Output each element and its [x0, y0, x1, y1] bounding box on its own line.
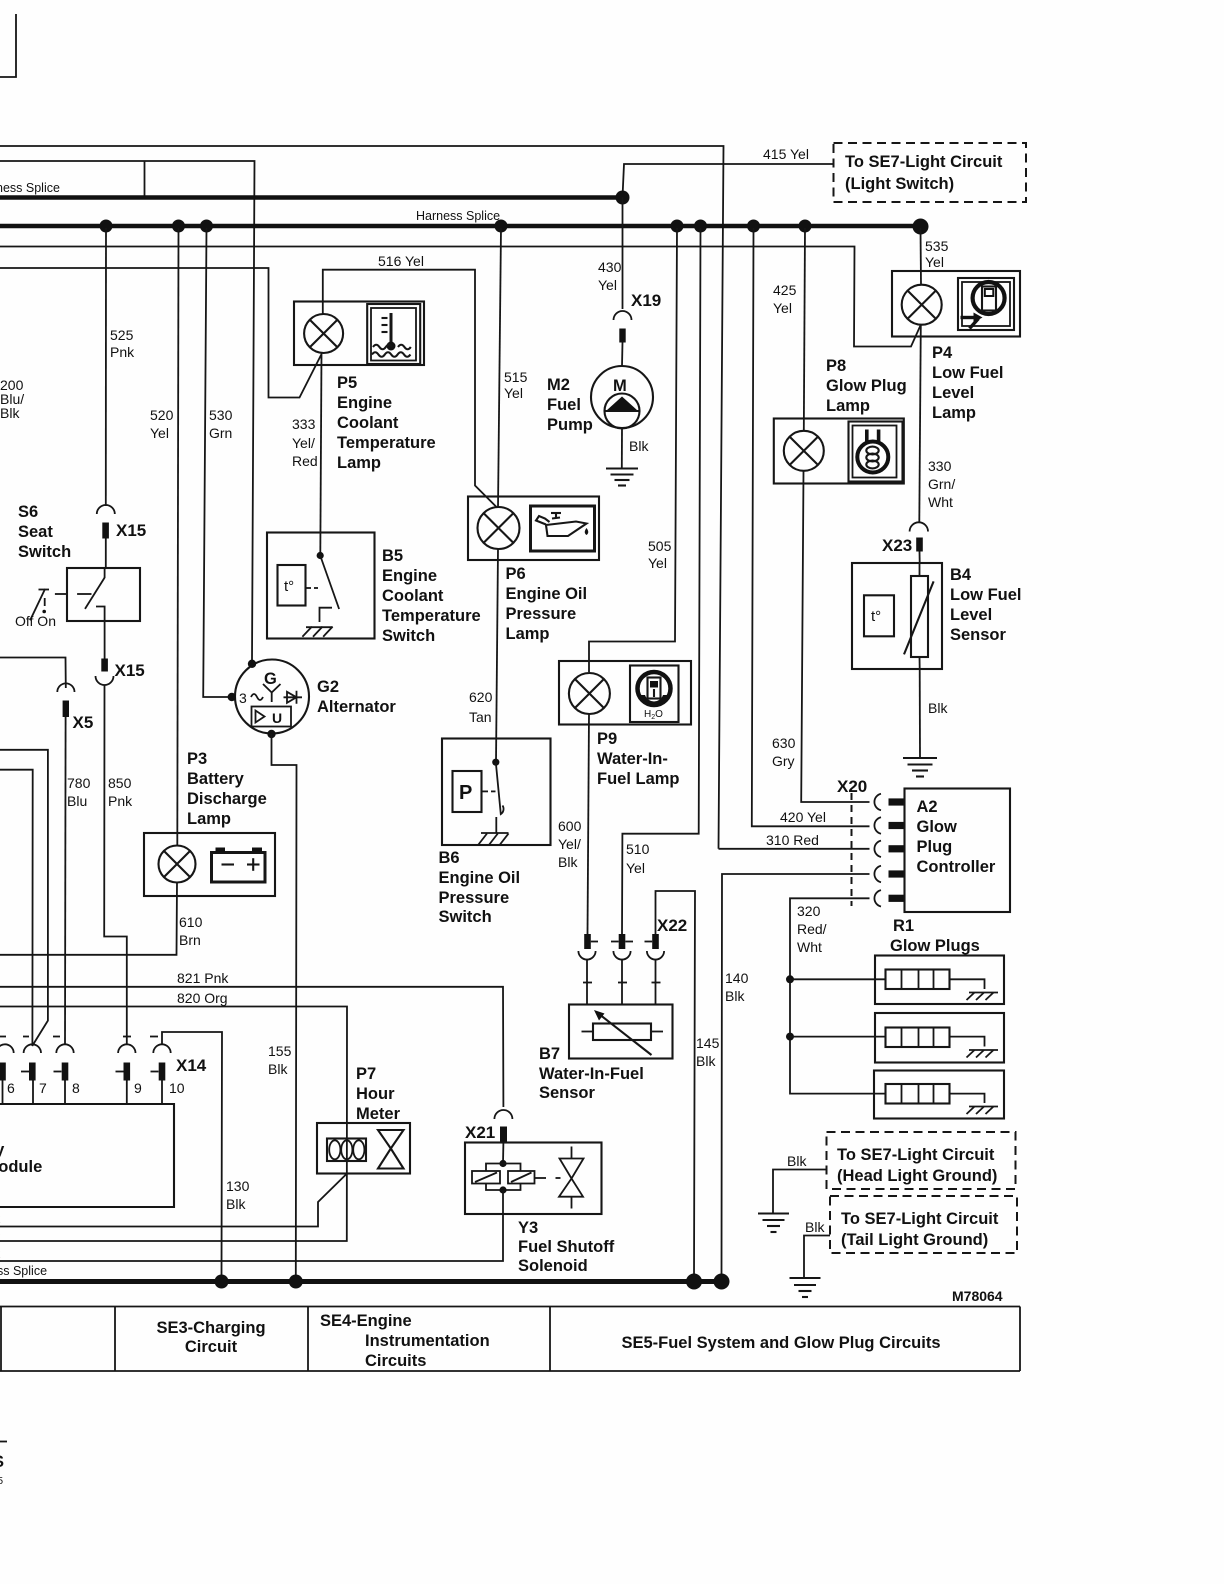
wire 415 Yel — [623, 146, 834, 197]
svg-text:610: 610 — [179, 914, 203, 930]
svg-text:B4: B4 — [950, 566, 972, 584]
wire 420 Yel bus2 to X20 pin2 — [752, 228, 870, 826]
wire 140 Blk X20 pin4 to bottom bus — [722, 874, 870, 1280]
svg-text:Circuit: Circuit — [185, 1338, 238, 1356]
earth ground (head light) — [758, 1214, 789, 1233]
svg-text:To SE7-Light Circuit: To SE7-Light Circuit — [841, 1210, 999, 1228]
solenoid Y3 fuel shutoff — [465, 1143, 615, 1276]
svg-text:Low Fuel: Low Fuel — [950, 586, 1022, 604]
svg-text:515: 515 — [504, 369, 528, 385]
svg-text:Water-In-: Water-In- — [597, 750, 668, 768]
svg-text:330: 330 — [928, 458, 952, 474]
svg-text:130: 130 — [226, 1178, 250, 1194]
svg-text:Hour: Hour — [356, 1085, 395, 1103]
wire from page edge to X14 pin7 (straight) — [0, 770, 33, 1046]
svg-text:X15: X15 — [116, 521, 146, 540]
svg-text:Sensor: Sensor — [539, 1084, 596, 1102]
svg-text:Red/: Red/ — [797, 921, 827, 937]
svg-text:9: 9 — [134, 1080, 142, 1096]
connector X5 — [0, 658, 93, 733]
svg-text:05: 05 — [0, 1476, 4, 1487]
svg-text:P4: P4 — [932, 344, 953, 362]
svg-text:Yel: Yel — [150, 425, 169, 441]
earth ground under B4 — [903, 758, 937, 777]
svg-text:X19: X19 — [631, 291, 661, 310]
svg-text:8: 8 — [72, 1080, 80, 1096]
svg-text:7: 7 — [39, 1080, 47, 1096]
svg-text:6: 6 — [7, 1080, 15, 1096]
lamp P6 engine oil pressure — [468, 497, 599, 644]
svg-text:X21: X21 — [465, 1123, 495, 1142]
low fuel icon in P4 — [958, 278, 1014, 330]
svg-text:t°: t° — [284, 578, 294, 595]
svg-text:535: 535 — [925, 238, 949, 254]
svg-text:G: G — [264, 670, 277, 688]
svg-text:P9: P9 — [597, 730, 617, 748]
svg-text:820 Org: 820 Org — [177, 990, 228, 1006]
svg-text:ss Splice: ss Splice — [0, 1264, 47, 1278]
svg-text:Red: Red — [292, 453, 318, 469]
svg-text:(Light Switch): (Light Switch) — [845, 175, 954, 193]
svg-text:X5: X5 — [73, 713, 94, 732]
wire 425 Yel bus2 to P8 lamp — [773, 228, 805, 431]
wire 535 Yel bus2 end to P4 lamp — [921, 228, 949, 285]
chassis ground in B5 — [302, 627, 332, 637]
svg-text:S: S — [0, 1453, 4, 1471]
svg-text:Brn: Brn — [179, 932, 201, 948]
module box (cut at page edge) — [0, 1104, 174, 1207]
wire 310 Red into X20 pin3 — [719, 832, 870, 849]
connector X15 lower — [96, 621, 145, 685]
svg-text:Seat: Seat — [18, 523, 53, 541]
wire 330 Grn/Wht P4 to X23 — [919, 325, 955, 522]
svg-text:310 Red: 310 Red — [766, 832, 819, 848]
connector X14 pin 10 — [151, 1044, 207, 1104]
wire 530 Grn bus2 to alternator pin 3 — [203, 228, 232, 697]
svg-text:Level: Level — [950, 606, 992, 624]
svg-text:Blk: Blk — [928, 700, 948, 716]
wire 820 Org page edge through P7 and back — [0, 990, 347, 1241]
bottom ground bus — [0, 1274, 730, 1290]
svg-text:Level: Level — [932, 384, 974, 402]
svg-text:Grn/: Grn/ — [928, 476, 955, 492]
svg-text:Alternator: Alternator — [317, 698, 396, 716]
dashed box To SE7 Light Switch — [834, 143, 1027, 202]
svg-text:600: 600 — [558, 818, 582, 834]
svg-text:Battery: Battery — [187, 770, 245, 788]
wire 610 Brn P3 to page edge — [0, 883, 203, 955]
svg-text:U: U — [272, 710, 282, 726]
svg-text:Wht: Wht — [797, 939, 822, 955]
svg-text:Blu: Blu — [67, 793, 87, 809]
svg-text:Pnk: Pnk — [110, 344, 135, 360]
wire Blk to head light ground — [773, 1153, 827, 1214]
water-in-fuel icon in P9 — [630, 666, 679, 723]
svg-text:P7: P7 — [356, 1065, 376, 1083]
svg-text:Plug: Plug — [917, 838, 953, 856]
svg-text:Yel: Yel — [648, 555, 667, 571]
svg-text:Off On: Off On — [15, 613, 56, 629]
section bar — [0, 1307, 1020, 1372]
svg-text:S6: S6 — [18, 503, 38, 521]
svg-text:505: 505 — [648, 538, 672, 554]
lamp P5 engine coolant temperature — [294, 302, 436, 473]
svg-text:Fuel: Fuel — [547, 396, 581, 414]
connector X14 pin 6 (cut at edge) — [0, 1044, 15, 1104]
wire 510 Yel bus2 to X22 pin2 — [622, 228, 701, 934]
wire 155 Blk alternator to bottom bus — [268, 734, 297, 1279]
wire 780 Blu to X14 pin 8 — [65, 717, 91, 1044]
harness splice bus 1 — [0, 181, 630, 205]
svg-text:Lamp: Lamp — [506, 625, 550, 643]
svg-text:Glow Plug: Glow Plug — [826, 377, 907, 395]
S6 actuator symbol with Off/On — [15, 589, 67, 629]
svg-text:333: 333 — [292, 416, 316, 432]
svg-text:320: 320 — [797, 903, 821, 919]
wire 600 Yel/Blk P9 to X22 — [558, 714, 589, 934]
svg-text:Meter: Meter — [356, 1105, 401, 1123]
wire 333 Yel/Red line4 — [0, 268, 321, 469]
sensor B4 low fuel level — [852, 563, 1022, 669]
svg-text:Tan: Tan — [469, 709, 492, 725]
svg-text:Module: Module — [0, 1158, 42, 1176]
hour meter P7 — [317, 1065, 410, 1174]
svg-text:Blk: Blk — [725, 988, 745, 1004]
svg-text:Pump: Pump — [547, 416, 593, 434]
svg-text:520: 520 — [150, 407, 174, 423]
earth ground (tail light) — [790, 1278, 821, 1297]
svg-text:Fuel Shutoff: Fuel Shutoff — [518, 1238, 615, 1256]
svg-text:Engine Oil: Engine Oil — [506, 585, 588, 603]
svg-text:3: 3 — [239, 690, 247, 706]
wire stub line2 to bus1 — [144, 161, 146, 198]
svg-text:425: 425 — [773, 282, 797, 298]
wire 620 Tan P6 to B6 — [469, 549, 498, 762]
glow plug 2 — [875, 1013, 1004, 1063]
wire 630 Gry P8 to X20 pin1 — [772, 471, 870, 802]
svg-text:Wht: Wht — [928, 494, 953, 510]
connector X14 pin 7 — [21, 1044, 47, 1104]
svg-text:Water-In-Fuel: Water-In-Fuel — [539, 1065, 644, 1083]
svg-text:To SE7-Light Circuit: To SE7-Light Circuit — [837, 1146, 995, 1164]
svg-text:Yel: Yel — [626, 860, 645, 876]
svg-text:145: 145 — [696, 1035, 720, 1051]
svg-text:420 Yel: 420 Yel — [780, 809, 826, 825]
svg-text:Lamp: Lamp — [187, 810, 231, 828]
svg-text:Pressure: Pressure — [506, 605, 577, 623]
wire Blk B4 to ground — [920, 669, 949, 758]
svg-text:Yel/: Yel/ — [292, 435, 315, 451]
svg-text:Blk: Blk — [629, 438, 649, 454]
svg-text:140: 140 — [725, 970, 749, 986]
svg-text:Sensor: Sensor — [950, 626, 1007, 644]
svg-text:X22: X22 — [657, 916, 687, 935]
svg-text:415 Yel: 415 Yel — [763, 146, 809, 162]
svg-text:Engine: Engine — [337, 394, 392, 412]
svg-text:Pressure: Pressure — [439, 889, 510, 907]
glow plug 1 — [875, 956, 1004, 1005]
page margin marks bottom left — [0, 1442, 7, 1488]
svg-text:R1: R1 — [893, 917, 914, 935]
svg-text:X15: X15 — [115, 661, 145, 680]
svg-text:Blk: Blk — [787, 1153, 807, 1169]
svg-text:Blk: Blk — [0, 405, 20, 421]
svg-text:Controller: Controller — [917, 858, 996, 876]
wire line2 to alternator top — [0, 161, 255, 660]
connector X20 pin sockets into A2 — [874, 794, 904, 907]
wire 320 Red/Wht X20 pin5 to glow plugs — [786, 898, 886, 1093]
svg-text:SE5-Fuel System and Glow Plug: SE5-Fuel System and Glow Plug Circuits — [621, 1334, 940, 1352]
svg-text:Gry: Gry — [772, 753, 795, 769]
section label SE3 — [156, 1319, 265, 1356]
wire 310 Red top rail (line1) — [0, 146, 724, 849]
svg-text:Harness Splice: Harness Splice — [416, 209, 500, 223]
connector X14 dashed mating line — [0, 1036, 158, 1038]
wire P5 lamp to B5 — [320, 353, 321, 555]
wire Blk to tail light ground — [804, 1219, 830, 1278]
svg-text:Blk: Blk — [268, 1061, 288, 1077]
svg-text:Y3: Y3 — [518, 1219, 538, 1237]
switch B5 engine coolant temperature — [267, 533, 481, 646]
wire 130 Blk X14 pin10 to bottom bus — [162, 1032, 250, 1279]
wire 145 Blk X22 pin3 to bottom bus — [656, 891, 720, 1280]
svg-text:Solenoid: Solenoid — [518, 1257, 588, 1275]
svg-text:P5: P5 — [337, 374, 357, 392]
svg-text:(Head Light Ground): (Head Light Ground) — [837, 1167, 997, 1185]
svg-text:G2: G2 — [317, 678, 339, 696]
svg-text:Lamp: Lamp — [826, 397, 870, 415]
svg-text:Yel: Yel — [773, 300, 792, 316]
svg-text:P8: P8 — [826, 357, 846, 375]
harness splice bus 2 — [0, 209, 929, 235]
chassis ground in B6 — [478, 833, 509, 846]
wire from page edge to X14 pin7 (diagonal) — [0, 750, 48, 1046]
svg-text:Switch: Switch — [439, 908, 492, 926]
svg-text:Yel/: Yel/ — [558, 836, 581, 852]
svg-text:10: 10 — [169, 1080, 185, 1096]
lamp P9 water-in-fuel — [559, 661, 691, 788]
svg-text:525: 525 — [110, 327, 134, 343]
svg-text:Switch: Switch — [18, 543, 71, 561]
svg-text:Blk: Blk — [226, 1196, 246, 1212]
svg-text:Blk: Blk — [696, 1053, 716, 1069]
svg-text:Engine: Engine — [382, 567, 437, 585]
earth ground under M2 — [606, 469, 638, 486]
svg-text:430: 430 — [598, 259, 622, 275]
svg-text:M: M — [613, 377, 627, 395]
svg-text:821 Pnk: 821 Pnk — [177, 970, 229, 986]
svg-text:510: 510 — [626, 841, 650, 857]
svg-text:ness Splice: ness Splice — [0, 181, 60, 195]
svg-text:530: 530 — [209, 407, 233, 423]
svg-text:Fuel Lamp: Fuel Lamp — [597, 770, 680, 788]
svg-text:Switch: Switch — [382, 627, 435, 645]
lamp P8 glow plug — [774, 357, 907, 484]
wire 505 Yel bus2 to P9 — [589, 228, 677, 672]
svg-text:Coolant: Coolant — [382, 587, 444, 605]
lamp P4 low fuel level — [892, 271, 1020, 422]
motor M2 fuel pump — [547, 366, 653, 434]
svg-text:Yel: Yel — [598, 277, 617, 293]
svg-text:Instrumentation: Instrumentation — [365, 1332, 490, 1350]
page corner fragment top-left — [0, 14, 16, 77]
svg-text:Blk: Blk — [558, 854, 578, 870]
svg-text:516 Yel: 516 Yel — [378, 253, 424, 269]
svg-text:To SE7-Light Circuit: To SE7-Light Circuit — [845, 153, 1003, 171]
svg-text:Glow: Glow — [917, 818, 957, 836]
svg-text:P6: P6 — [506, 565, 526, 583]
svg-text:155: 155 — [268, 1043, 292, 1059]
connector X22 (three pins) — [578, 916, 687, 1005]
wire 515 Yel bus2 to P6 lamp — [498, 228, 528, 508]
svg-text:Grn: Grn — [209, 425, 232, 441]
connector X23 — [882, 522, 928, 563]
switch B6 engine oil pressure — [439, 739, 551, 927]
svg-text:780: 780 — [67, 775, 91, 791]
svg-text:A2: A2 — [917, 798, 938, 816]
svg-text:Lamp: Lamp — [932, 404, 976, 422]
svg-text:Discharge: Discharge — [187, 790, 267, 808]
wire M2 to ground — [622, 428, 650, 469]
svg-text:P3: P3 — [187, 750, 207, 768]
wire 821 Pnk page edge to X21 — [0, 970, 503, 1107]
alternator G2 — [228, 660, 397, 739]
wire Y3 bottom to page edge — [0, 1214, 503, 1261]
svg-text:(Tail Light Ground): (Tail Light Ground) — [841, 1231, 988, 1249]
svg-text:t°: t° — [871, 608, 881, 625]
dashed box To SE7 head light ground — [827, 1132, 1016, 1189]
svg-text:Glow Plugs: Glow Plugs — [890, 937, 980, 955]
switch S6 seat switch — [18, 503, 140, 621]
connector X19 — [614, 291, 662, 366]
svg-text:M78064: M78064 — [952, 1288, 1003, 1304]
wire 525 Pnk — [106, 228, 135, 506]
svg-text:630: 630 — [772, 735, 796, 751]
sensor B7 water-in-fuel — [539, 1005, 673, 1103]
connector X20 dashed mating line — [837, 777, 867, 906]
svg-text:P: P — [459, 782, 472, 804]
svg-text:Low Fuel: Low Fuel — [932, 364, 1004, 382]
svg-text:M2: M2 — [547, 376, 570, 394]
lamp P3 battery discharge — [144, 750, 275, 896]
battery icon in P3 — [212, 848, 266, 883]
svg-text:Pnk: Pnk — [108, 793, 133, 809]
wire line3 to P4 lamp — [0, 247, 921, 347]
svg-text:X23: X23 — [882, 536, 912, 555]
connector X15 upper — [97, 505, 146, 568]
svg-text:Yel: Yel — [925, 254, 944, 270]
connector X14 pin 8 — [54, 1044, 81, 1104]
svg-text:B7: B7 — [539, 1045, 560, 1063]
connector X14 pin 9 — [116, 1044, 143, 1104]
svg-text:Coolant: Coolant — [337, 414, 399, 432]
svg-text:B5: B5 — [382, 547, 403, 565]
coolant temperature icon in P5 — [367, 304, 420, 364]
controller A2 glow plug — [905, 789, 1011, 913]
svg-text:SE3-Charging: SE3-Charging — [156, 1319, 265, 1337]
wire 850 Pnk to X14 pin 9 — [104, 685, 133, 1044]
wire 520 Yel bus2 to P3 lamp — [150, 228, 179, 846]
cut wire labels at left edge — [0, 1212, 47, 1278]
oil can icon in P6 — [531, 506, 595, 551]
wire P7 to ground line — [0, 1174, 347, 1227]
svg-text:Circuits: Circuits — [365, 1352, 426, 1370]
svg-text:B6: B6 — [439, 849, 460, 867]
dashed box To SE7 tail light ground — [830, 1196, 1017, 1253]
wire 430 Yel bus1 to X19 — [598, 198, 623, 310]
svg-text:Temperature: Temperature — [382, 607, 481, 625]
svg-text:SE4-Engine: SE4-Engine — [320, 1312, 412, 1330]
label R1 Glow Plugs — [890, 917, 980, 955]
section label SE4 — [320, 1312, 490, 1370]
svg-text:Blk: Blk — [805, 1219, 825, 1235]
svg-text:X20: X20 — [837, 777, 867, 796]
svg-text:620: 620 — [469, 689, 493, 705]
glow plug 3 — [874, 1071, 1004, 1119]
svg-text:Yel: Yel — [504, 385, 523, 401]
svg-text:Engine Oil: Engine Oil — [439, 869, 521, 887]
svg-text:X14: X14 — [176, 1056, 207, 1075]
svg-text:850: 850 — [108, 775, 132, 791]
wire 516 Yel P5 to P6 — [323, 253, 497, 508]
svg-text:Lamp: Lamp — [337, 454, 381, 472]
label 200 Blu/Blk (cut at page edge) — [0, 377, 24, 421]
connector X21 — [465, 1110, 512, 1143]
svg-text:Temperature: Temperature — [337, 434, 436, 452]
glow plug icon in P8 — [849, 422, 903, 482]
